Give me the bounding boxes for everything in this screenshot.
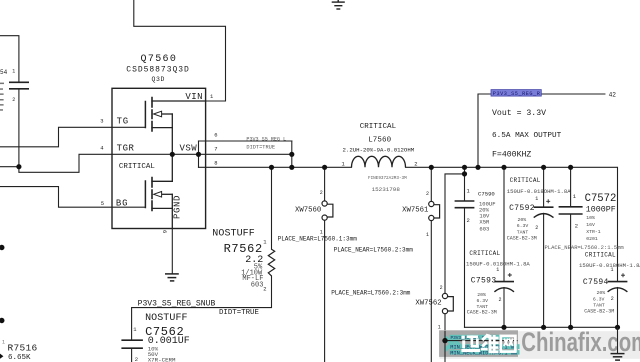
node dot left edge lower bbox=[0, 318, 5, 323]
svg-text:CASE-B2-3M: CASE-B2-3M bbox=[467, 310, 497, 316]
wire C7590 branch top bbox=[464, 167, 466, 200]
svg-text:CSD58873Q3D: CSD58873Q3D bbox=[126, 65, 189, 74]
wire stub to left edge at node bbox=[0, 166, 19, 168]
watermark CJK glyph wei bbox=[481, 334, 499, 354]
node dot net label branch bbox=[475, 165, 480, 170]
svg-text:XTR-1: XTR-1 bbox=[586, 229, 601, 235]
svg-text:PLACE_NEAR=L7560.1:3mm: PLACE_NEAR=L7560.1:3mm bbox=[278, 236, 358, 243]
wire C7572 branch bbox=[570, 167, 572, 206]
pin numbers of C7590 bbox=[467, 187, 471, 224]
labels of inductor L7560 bbox=[343, 123, 415, 193]
svg-text:P3V3_S5_REG_R: P3V3_S5_REG_R bbox=[493, 91, 541, 97]
transistor Q7560 low-side FET source vertical to PGND bbox=[171, 194, 173, 228]
svg-text:20%: 20% bbox=[597, 290, 606, 296]
pin numbers of C7592 bbox=[535, 196, 538, 231]
svg-text:Vout = 3.3V: Vout = 3.3V bbox=[492, 109, 546, 118]
transistor Q7560 high-side FET drain line to VIN bbox=[152, 100, 206, 102]
transistor Q7560 low-side FET channel segments bbox=[151, 178, 153, 211]
watermark teal chevron logo bbox=[445, 335, 456, 353]
transistor Q7560 low-side FET drain vertical from VSW rail bbox=[171, 154, 173, 181]
arrow of low-side FET body bbox=[154, 192, 162, 198]
svg-text:0201: 0201 bbox=[586, 236, 598, 242]
node dot bottom bus C7572 bbox=[568, 325, 573, 330]
svg-text:TANT: TANT bbox=[517, 229, 529, 235]
svg-text:1: 1 bbox=[438, 325, 441, 331]
transistor Q7560 high-side FET gate bar bbox=[144, 102, 146, 128]
wire main output bus right of inductor bbox=[406, 167, 618, 281]
svg-text:DIDT=TRUE: DIDT=TRUE bbox=[246, 144, 275, 150]
plus sign C7592 bbox=[546, 199, 550, 203]
node dot bottom bus C7593 bbox=[501, 325, 506, 330]
svg-text:VSW: VSW bbox=[180, 144, 198, 154]
svg-text:2: 2 bbox=[467, 217, 470, 224]
svg-text:PLACE_NEAR=L7560.2:1.5mm: PLACE_NEAR=L7560.2:1.5mm bbox=[545, 244, 625, 251]
node dot C7593 branch bbox=[501, 165, 506, 170]
node dot C7590 branch bbox=[462, 165, 467, 170]
off-page arrow R7516 bbox=[0, 354, 3, 359]
svg-text:Q7560: Q7560 bbox=[141, 54, 178, 65]
svg-text:2: 2 bbox=[426, 191, 429, 197]
svg-text:3: 3 bbox=[100, 118, 103, 125]
svg-text:XW7560: XW7560 bbox=[295, 207, 321, 215]
wire R7562 bottom to snubber rail bbox=[132, 276, 272, 340]
wire XW7562 vertical over watermark bbox=[444, 331, 446, 362]
wire C7562 bottom leg bbox=[131, 349, 133, 362]
pin numbers of C7572 bbox=[573, 193, 578, 230]
svg-text:2: 2 bbox=[440, 285, 443, 291]
node dot XW7562 lower rail bbox=[442, 338, 447, 343]
watermark badge box bbox=[439, 330, 518, 357]
svg-text:R7516: R7516 bbox=[8, 342, 38, 353]
svg-text:5: 5 bbox=[101, 200, 104, 207]
labels of capacitor C7590 bbox=[478, 191, 496, 233]
wire pin bracket inside Q7560 bbox=[198, 141, 200, 167]
svg-text:2: 2 bbox=[12, 97, 15, 103]
svg-text:15231798: 15231798 bbox=[372, 186, 401, 193]
svg-text:6.5A MAX OUTPUT: 6.5A MAX OUTPUT bbox=[492, 132, 562, 140]
svg-text:XW7561: XW7561 bbox=[402, 207, 429, 215]
ground symbol top middle bbox=[332, 0, 345, 9]
jumper XW7560 bbox=[322, 201, 333, 220]
svg-text:CRITICAL: CRITICAL bbox=[510, 177, 541, 184]
svg-text:2: 2 bbox=[499, 297, 502, 303]
wire XW7561 branch upper bbox=[430, 167, 432, 201]
svg-text:XW7562: XW7562 bbox=[415, 300, 441, 308]
node dot left edge upper bbox=[0, 245, 5, 250]
svg-text:20%: 20% bbox=[518, 217, 527, 223]
svg-text:CRITICAL: CRITICAL bbox=[469, 250, 500, 257]
wire C7592 branch bbox=[543, 167, 545, 206]
svg-text:1: 1 bbox=[2, 340, 5, 346]
capacitor C7592 polarized plates bbox=[534, 206, 554, 208]
svg-text:16V: 16V bbox=[586, 222, 595, 228]
svg-text:2: 2 bbox=[535, 225, 538, 231]
transistor Q7560 high-side FET body stub bbox=[161, 113, 172, 115]
wire bottom ground bus bbox=[465, 326, 618, 328]
pin numbers of C7594 bbox=[611, 267, 614, 302]
node dot R7562 branch bbox=[269, 165, 274, 170]
wire net label branch to output off-page 42 bbox=[478, 94, 605, 167]
pin numbers of C7593 bbox=[496, 267, 501, 303]
svg-text:2: 2 bbox=[414, 160, 417, 167]
svg-text:TGR: TGR bbox=[117, 144, 135, 154]
wire XW7562 lower bbox=[444, 314, 446, 341]
transistor Q7560 high-side FET source stub bbox=[152, 127, 172, 129]
inductor L7560 winding bbox=[352, 156, 406, 167]
svg-text:1: 1 bbox=[12, 69, 15, 75]
svg-text:1: 1 bbox=[611, 267, 614, 273]
watermark CJK glyph xun bbox=[461, 335, 480, 352]
jumper XW7562 bbox=[442, 293, 453, 313]
svg-text:C7572: C7572 bbox=[585, 193, 617, 205]
node dot pin8 connector bbox=[289, 165, 294, 170]
svg-text:Q3D: Q3D bbox=[152, 76, 166, 83]
watermark light band bbox=[440, 331, 640, 359]
svg-text:P3V3_S5_REG_SNUB: P3V3_S5_REG_SNUB bbox=[138, 299, 216, 308]
pin numbers of R7562 bbox=[263, 238, 267, 292]
svg-text:X7R-CERM: X7R-CERM bbox=[148, 357, 176, 362]
wire ground drop over watermark bbox=[617, 327, 619, 353]
node dot XW7561 branch bbox=[429, 165, 434, 170]
value text slivers of left capacitor bbox=[0, 83, 4, 111]
wire C7590 branch bottom leg to bottom bus bbox=[464, 208, 466, 327]
node dot XW7560 branch bbox=[322, 165, 327, 170]
svg-text:CRITICAL: CRITICAL bbox=[119, 163, 156, 171]
svg-text:CASE-B2-3M: CASE-B2-3M bbox=[507, 236, 537, 242]
labels of capacitor C7572 bbox=[585, 193, 617, 242]
wire VSW rail pin 4 to pin 7 bbox=[112, 153, 292, 155]
svg-text:1: 1 bbox=[535, 196, 538, 202]
node dot bottom bus C7592 bbox=[541, 325, 546, 330]
wire C7572 lower leg bbox=[570, 215, 572, 328]
capacitor C7593 polarized plates bbox=[494, 281, 514, 283]
transistor Q7560 low-side FET drain stub bbox=[152, 180, 172, 182]
wire lower rail from XW7562 bbox=[445, 340, 518, 342]
pin numbers of L7560 bbox=[342, 160, 418, 167]
plus sign C7594 bbox=[621, 273, 625, 277]
wire BG pin 5 bbox=[0, 187, 145, 208]
svg-text:FINE9372A2M3-3M: FINE9372A2M3-3M bbox=[368, 176, 407, 181]
svg-text:6: 6 bbox=[214, 131, 217, 138]
node dot pin7 connector bbox=[289, 152, 294, 157]
svg-text:C7590: C7590 bbox=[478, 191, 495, 198]
transistor Q7560 low-side FET body stub bbox=[161, 193, 172, 195]
node dot XW7562 feeder on C7590 leg bbox=[462, 171, 467, 176]
ground symbol bottom right bbox=[611, 354, 625, 361]
svg-text:2.2UH-20%-9A-0.012OHM: 2.2UH-20%-9A-0.012OHM bbox=[343, 146, 415, 153]
svg-text:1: 1 bbox=[426, 232, 429, 238]
svg-text:L7560: L7560 bbox=[368, 136, 391, 144]
svg-text:42: 42 bbox=[609, 91, 617, 98]
svg-text:P3V3_S5_REG_L: P3V3_S5_REG_L bbox=[246, 137, 286, 143]
resistor R7562 zigzag bbox=[268, 249, 274, 276]
wire left capacitor top feed bbox=[0, 36, 19, 82]
placement attribute texts bbox=[278, 236, 414, 297]
svg-text:54: 54 bbox=[0, 69, 8, 76]
svg-text:C7592: C7592 bbox=[509, 204, 535, 213]
svg-text:C7594: C7594 bbox=[583, 278, 609, 287]
svg-text:Chinafix.com: Chinafix.com bbox=[521, 327, 640, 357]
transistor Q7560 high-side FET channel segments bbox=[151, 98, 153, 132]
svg-text:2: 2 bbox=[135, 356, 138, 362]
svg-text:PLACE_NEAR=L7560.2:3mm: PLACE_NEAR=L7560.2:3mm bbox=[334, 247, 414, 254]
pin numbers of C7562 bbox=[133, 326, 138, 362]
svg-text:2: 2 bbox=[611, 296, 614, 302]
node dot bottom bus ground bbox=[615, 325, 620, 330]
capacitor C7572 plates bbox=[559, 207, 583, 214]
svg-text:VIN: VIN bbox=[185, 92, 203, 102]
svg-text:8: 8 bbox=[214, 160, 217, 167]
svg-text:2: 2 bbox=[575, 223, 578, 230]
ground symbol under Q7560 pin 9 bbox=[165, 274, 179, 281]
wire XW7562 feeder from C7590 leg bbox=[445, 174, 465, 293]
node dot C7572 branch bbox=[568, 165, 573, 170]
svg-text:20%: 20% bbox=[477, 292, 486, 298]
svg-text:BG: BG bbox=[116, 199, 128, 209]
node dot left cap / TGR bbox=[16, 164, 21, 169]
pin numbers of Q7560 bbox=[100, 93, 217, 233]
svg-text:6.3V: 6.3V bbox=[517, 223, 529, 229]
svg-text:1: 1 bbox=[496, 267, 499, 273]
wire XW7560 branch upper bbox=[324, 167, 326, 201]
svg-text:9: 9 bbox=[162, 230, 169, 233]
svg-text:CRITICAL: CRITICAL bbox=[585, 251, 616, 258]
watermark highlighted net text row backgrounds bbox=[450, 335, 510, 340]
svg-text:PLACE_NEAR=L7560.2:3mm: PLACE_NEAR=L7560.2:3mm bbox=[331, 290, 411, 297]
wire XW7560 branch lower to bottom edge bbox=[324, 220, 326, 362]
svg-text:TG: TG bbox=[117, 117, 129, 127]
svg-text:CASE-B2-3M: CASE-B2-3M bbox=[584, 308, 614, 314]
svg-text:7: 7 bbox=[214, 145, 217, 152]
labels of capacitor C7594 bbox=[579, 251, 640, 314]
labels of capacitor C7562 bbox=[145, 313, 190, 362]
wire pin6/7/8 connector vertical bbox=[291, 141, 293, 167]
capacitor C7554 partial at left edge bbox=[9, 82, 29, 89]
svg-text:603: 603 bbox=[251, 281, 264, 289]
wire C7594 lower leg bbox=[617, 288, 619, 328]
svg-text:C7593: C7593 bbox=[471, 277, 497, 286]
svg-text:CRITICAL: CRITICAL bbox=[360, 123, 397, 131]
wire C7592 lower leg bbox=[543, 213, 545, 327]
pin numbers of jumpers bbox=[320, 190, 443, 330]
node dot VSW rail / FET verticals bbox=[170, 152, 175, 157]
capacitor C7562 plates bbox=[121, 340, 142, 348]
svg-text:NOSTUFF: NOSTUFF bbox=[212, 229, 255, 240]
node dot C7592 branch bbox=[541, 165, 546, 170]
svg-text:6.3V: 6.3V bbox=[593, 296, 605, 302]
svg-text:DIDT=TRUE: DIDT=TRUE bbox=[219, 309, 259, 317]
wire VIN feed from top edge to pin 1 bbox=[134, 0, 226, 101]
svg-text:6.65K: 6.65K bbox=[8, 354, 31, 362]
svg-text:1000PF: 1000PF bbox=[586, 205, 616, 214]
wire XW7561 branch lower to bottom edge bbox=[430, 221, 432, 362]
labels of capacitor C7593 bbox=[466, 250, 530, 315]
capacitor C7594 polarized plates bbox=[608, 281, 628, 283]
jumper XW7561 bbox=[429, 201, 440, 220]
wire Q7560 pin 9 to ground bbox=[171, 229, 173, 274]
wire main VSW output bus left of inductor bbox=[199, 166, 352, 168]
output annotation texts bbox=[492, 109, 562, 159]
wire R7562 branch from bus bbox=[271, 167, 273, 249]
node dot VSW rail / pin bracket bbox=[196, 152, 201, 157]
Q7560 package box bbox=[112, 88, 206, 228]
watermark CJK glyph wang bbox=[501, 336, 516, 352]
wire pin 6 stub bbox=[199, 140, 292, 142]
svg-text:NOSTUFF: NOSTUFF bbox=[145, 313, 188, 324]
svg-text:10%: 10% bbox=[586, 215, 595, 221]
wire C7593 lower leg bbox=[503, 288, 505, 328]
wire left cap bottom to TGR pin 4 bbox=[19, 89, 112, 172]
svg-text:R7562: R7562 bbox=[224, 242, 263, 256]
svg-text:X5R: X5R bbox=[479, 219, 490, 226]
transistor Q7560 low-side FET gate bar bbox=[144, 181, 146, 208]
plus sign C7593 bbox=[508, 273, 512, 277]
svg-text:PGND: PGND bbox=[173, 195, 183, 219]
arrow of high-side FET body bbox=[154, 111, 162, 117]
capacitor C7590 plates bbox=[455, 201, 475, 208]
svg-text:603: 603 bbox=[479, 226, 489, 233]
svg-text:6.3V: 6.3V bbox=[477, 298, 489, 304]
svg-text:150UF-0.018OHM-1.8A: 150UF-0.018OHM-1.8A bbox=[507, 188, 571, 195]
transistor Q7560 high-side FET source vertical to VSW rail bbox=[171, 114, 173, 154]
svg-text:2: 2 bbox=[263, 285, 266, 292]
labels of resistor R7562 bbox=[212, 229, 263, 290]
svg-text:F=400KHZ: F=400KHZ bbox=[492, 150, 531, 159]
wire C7593 branch bbox=[503, 167, 505, 281]
svg-text:150UF-0.018OHM-1.8A: 150UF-0.018OHM-1.8A bbox=[579, 262, 640, 269]
labels of capacitor C7592 bbox=[507, 177, 571, 241]
svg-text:2: 2 bbox=[320, 190, 323, 196]
net label box P3V3_S5_REG_R bbox=[491, 90, 541, 97]
labels of Q7560 bbox=[116, 54, 203, 219]
transistor Q7560 low-side FET source stub bbox=[152, 207, 172, 209]
wire TG pin 3 bbox=[0, 127, 145, 147]
